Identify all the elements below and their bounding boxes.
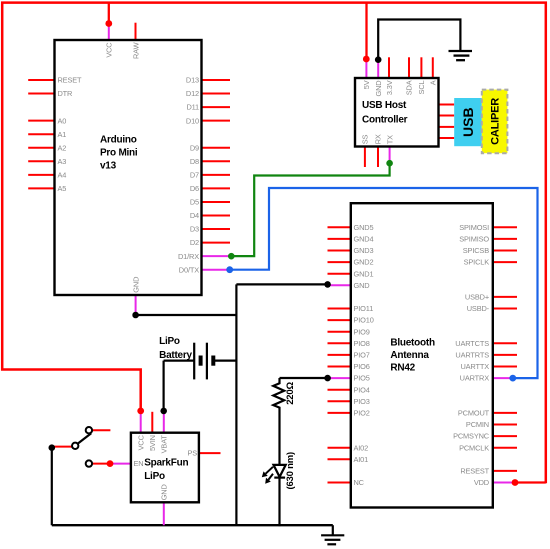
svg-text:Arduino: Arduino bbox=[100, 134, 137, 145]
svg-text:5VIN: 5VIN bbox=[148, 435, 157, 451]
svg-text:GND5: GND5 bbox=[354, 223, 374, 232]
svg-text:Controller: Controller bbox=[362, 114, 408, 125]
svg-text:GND: GND bbox=[131, 277, 140, 293]
svg-text:Battery: Battery bbox=[159, 350, 192, 361]
svg-text:PIO8: PIO8 bbox=[354, 339, 370, 348]
svg-text:PCMSYNC: PCMSYNC bbox=[453, 432, 490, 441]
svg-text:SCL: SCL bbox=[417, 80, 426, 94]
svg-text:DTR: DTR bbox=[58, 89, 73, 98]
svg-text:D5: D5 bbox=[190, 198, 199, 207]
svg-text:A: A bbox=[429, 80, 438, 85]
svg-text:D12: D12 bbox=[186, 89, 199, 98]
svg-text:PIO2: PIO2 bbox=[354, 409, 370, 418]
svg-text:VDD: VDD bbox=[474, 478, 489, 487]
svg-text:UARTRX: UARTRX bbox=[460, 374, 490, 383]
svg-text:PIO4: PIO4 bbox=[354, 385, 370, 394]
svg-text:PIO11: PIO11 bbox=[354, 304, 374, 313]
svg-text:PIO3: PIO3 bbox=[354, 397, 370, 406]
svg-text:PIO7: PIO7 bbox=[354, 351, 370, 360]
svg-text:220Ω: 220Ω bbox=[285, 382, 296, 405]
svg-text:D9: D9 bbox=[190, 143, 199, 152]
svg-text:CALIPER: CALIPER bbox=[489, 98, 501, 145]
svg-text:GND: GND bbox=[160, 484, 169, 500]
svg-text:PCMOUT: PCMOUT bbox=[458, 409, 490, 418]
svg-text:NC: NC bbox=[354, 478, 365, 487]
svg-text:USB Host: USB Host bbox=[362, 100, 407, 111]
svg-text:SS: SS bbox=[361, 135, 370, 145]
svg-text:UARTCTS: UARTCTS bbox=[455, 339, 489, 348]
svg-text:D10: D10 bbox=[186, 116, 199, 125]
svg-text:D2: D2 bbox=[190, 238, 199, 247]
svg-text:3.3V: 3.3V bbox=[385, 80, 394, 95]
svg-text:SPICSB: SPICSB bbox=[463, 246, 489, 255]
svg-text:PIO9: PIO9 bbox=[354, 327, 370, 336]
svg-text:D6: D6 bbox=[190, 184, 199, 193]
svg-text:PS: PS bbox=[187, 449, 197, 458]
svg-text:RX: RX bbox=[374, 134, 383, 144]
svg-text:D3: D3 bbox=[190, 225, 199, 234]
svg-text:VCC: VCC bbox=[105, 42, 114, 58]
svg-text:D0/TX: D0/TX bbox=[179, 265, 199, 274]
svg-text:LiPo: LiPo bbox=[144, 471, 165, 482]
svg-text:GND1: GND1 bbox=[354, 269, 374, 278]
svg-text:D8: D8 bbox=[190, 157, 199, 166]
svg-text:UARTRTS: UARTRTS bbox=[455, 351, 489, 360]
svg-text:PIO6: PIO6 bbox=[354, 362, 370, 371]
svg-text:UARTTX: UARTTX bbox=[460, 362, 489, 371]
svg-text:D1/RX: D1/RX bbox=[178, 252, 199, 261]
svg-text:Bluetooth: Bluetooth bbox=[390, 337, 435, 348]
svg-text:AI02: AI02 bbox=[354, 443, 369, 452]
svg-text:SDA: SDA bbox=[405, 80, 414, 95]
svg-text:D11: D11 bbox=[186, 103, 199, 112]
svg-text:PCMIN: PCMIN bbox=[466, 420, 489, 429]
svg-text:VCC: VCC bbox=[136, 434, 145, 450]
svg-text:RESET: RESET bbox=[58, 76, 83, 85]
svg-text:A4: A4 bbox=[58, 170, 67, 179]
svg-text:USBD+: USBD+ bbox=[465, 293, 489, 302]
svg-text:GND: GND bbox=[354, 281, 370, 290]
svg-text:A2: A2 bbox=[58, 143, 67, 152]
svg-text:5V: 5V bbox=[362, 80, 371, 89]
svg-text:PIO10: PIO10 bbox=[354, 316, 374, 325]
svg-text:v13: v13 bbox=[100, 160, 117, 171]
svg-text:(630 nm): (630 nm) bbox=[285, 452, 296, 490]
svg-text:RAW: RAW bbox=[131, 42, 140, 59]
svg-text:EN: EN bbox=[134, 459, 144, 468]
svg-text:A0: A0 bbox=[58, 116, 67, 125]
svg-text:A1: A1 bbox=[58, 130, 67, 139]
svg-text:A5: A5 bbox=[58, 184, 67, 193]
svg-text:D4: D4 bbox=[190, 211, 199, 220]
svg-text:SPIMISO: SPIMISO bbox=[459, 235, 489, 244]
svg-text:LiPo: LiPo bbox=[159, 336, 180, 347]
svg-text:SparkFun: SparkFun bbox=[144, 458, 188, 469]
svg-text:USBD-: USBD- bbox=[467, 304, 490, 313]
svg-text:PCMCLK: PCMCLK bbox=[459, 443, 489, 452]
svg-text:USB: USB bbox=[460, 107, 476, 137]
svg-text:PIO5: PIO5 bbox=[354, 374, 370, 383]
svg-text:Antenna: Antenna bbox=[390, 350, 429, 361]
svg-text:GND3: GND3 bbox=[354, 246, 374, 255]
svg-text:SPIMOSI: SPIMOSI bbox=[459, 223, 489, 232]
svg-text:RESEST: RESEST bbox=[460, 467, 489, 476]
svg-text:Pro Mini: Pro Mini bbox=[100, 148, 138, 159]
svg-text:RN42: RN42 bbox=[390, 363, 415, 374]
svg-text:AI01: AI01 bbox=[354, 455, 369, 464]
svg-text:A3: A3 bbox=[58, 157, 67, 166]
svg-text:GND2: GND2 bbox=[354, 258, 374, 267]
svg-text:GND4: GND4 bbox=[354, 235, 374, 244]
svg-text:GND: GND bbox=[374, 81, 383, 97]
svg-text:VBAT: VBAT bbox=[160, 435, 169, 454]
svg-text:D13: D13 bbox=[186, 76, 199, 85]
svg-text:SPICLK: SPICLK bbox=[464, 258, 490, 267]
svg-text:TX: TX bbox=[385, 135, 394, 144]
svg-text:D7: D7 bbox=[190, 170, 199, 179]
